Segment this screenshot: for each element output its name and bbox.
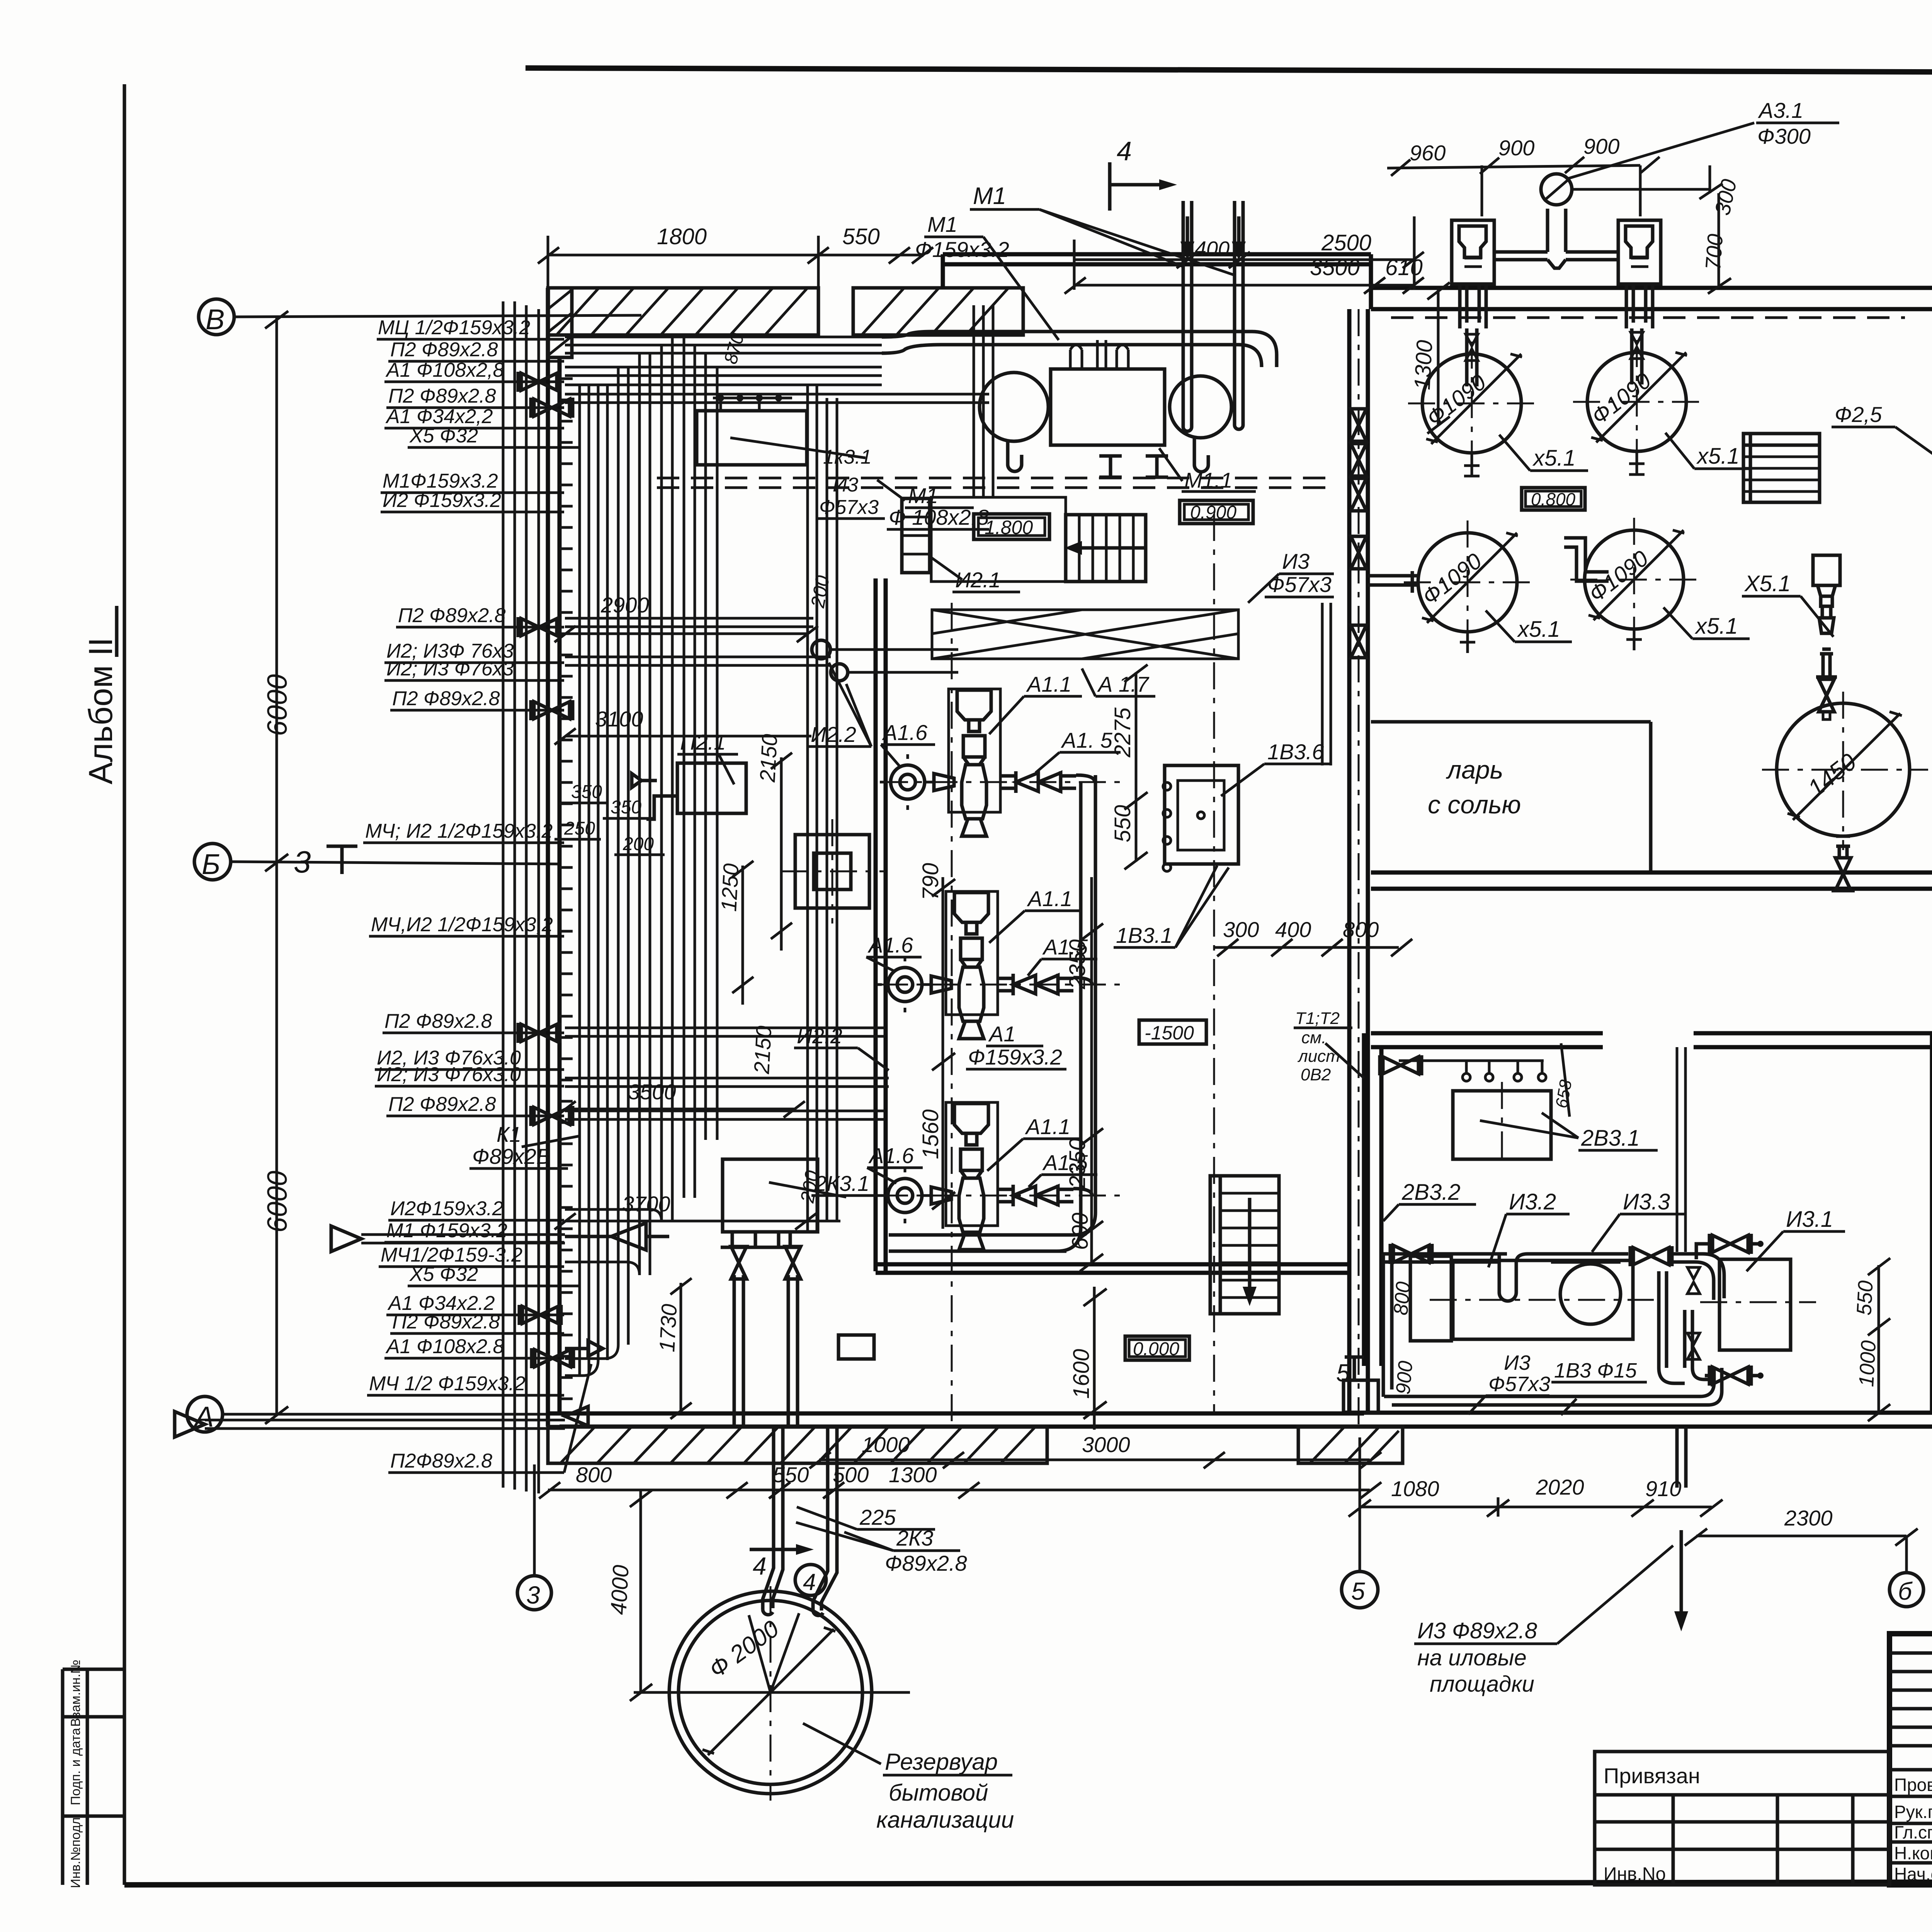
svg-text:А1.1: А1.1 [1025,1114,1070,1139]
top middle stairs [1065,515,1146,582]
svg-text:2300: 2300 [1784,1506,1833,1530]
pump drain U hooks [1008,438,1208,472]
svg-text:х5.1: х5.1 [1532,446,1576,471]
svg-text:1.800: 1.800 [985,517,1033,538]
svg-text:900: 900 [1583,134,1619,158]
down arrow outfall [1674,1530,1688,1631]
svg-text:225: 225 [859,1505,896,1529]
dash-dot axis vertical mid-right [1213,514,1215,1413]
svg-text:1300: 1300 [1410,339,1437,390]
bottom middle stairs [1210,1176,1279,1314]
dim 3100 [554,707,811,745]
svg-text:Ф89х2.8: Ф89х2.8 [885,1551,967,1575]
section mark 3 + tee left of Б [294,845,357,879]
dim 3500 [554,1080,805,1117]
chlorator bottle unit left [1452,220,1494,328]
svg-text:3: 3 [526,1581,540,1609]
svg-text:Взам.ин.№: Взам.ин.№ [68,1660,83,1727]
svg-text:И2Ф159х3.2: И2Ф159х3.2 [390,1197,503,1220]
svg-text:М1: М1 [973,183,1006,209]
A1.6 labels [866,720,935,1183]
svg-text:В: В [206,303,224,335]
svg-text:х5.1: х5.1 [1696,444,1740,469]
svg-text:б: б [1898,1577,1913,1605]
svg-text:Б: Б [202,848,220,880]
svg-text:х5.1: х5.1 [1517,617,1560,642]
svg-text:Рук.гр.: Рук.гр. [1894,1802,1932,1822]
tank bottom-right [1570,518,1698,643]
svg-text:790: 790 [918,863,943,900]
svg-text:А1: А1 [988,1022,1016,1046]
frame left line [123,84,126,1885]
privyazan table [1595,1752,1889,1885]
1.800 level box [974,514,1049,539]
svg-text:И3 Ф89х2.8: И3 Ф89х2.8 [1417,1618,1537,1643]
dim tick lines pump hall [932,665,1148,1430]
658 dim small [1552,1043,1576,1117]
svg-text:1800: 1800 [657,224,707,249]
I2.1 cells equipment [902,498,1020,592]
bottom pipe run of room [1384,1368,1722,1405]
gallery inner pipes pair [808,385,837,1233]
svg-text:4: 4 [753,1552,767,1580]
svg-text:МЧ; И2 1/2Ф159х3.2: МЧ; И2 1/2Ф159х3.2 [365,820,553,842]
svg-text:550: 550 [1852,1280,1878,1316]
crossed reserved area rect [932,610,1238,659]
M1 F108x2.8 label [877,480,989,529]
left wall pipe-rack rungs [560,379,573,1399]
svg-text:1В3.1: 1В3.1 [1116,923,1172,947]
svg-text:800: 800 [576,1463,612,1487]
M1 standpipes with arrows [1183,201,1243,431]
mid-top wall double line [943,254,1371,288]
I3 pipe down to 1V3.6 [1322,603,1331,765]
svg-text:1300: 1300 [889,1463,937,1487]
salt room text [1428,755,1521,819]
svg-text:6000: 6000 [262,1171,293,1233]
svg-text:2020: 2020 [1536,1475,1584,1499]
top-left corner vertical hatched pier [548,288,572,357]
pump axis dash-dot lines [881,782,1121,1196]
svg-text:П2 Ф89х2.8: П2 Ф89х2.8 [390,338,498,361]
A1.7 label [1082,668,1155,696]
buried mains outside left wall [503,301,539,1493]
svg-text:А1.6: А1.6 [882,720,928,745]
sump outer square [781,819,885,923]
pipe callout labels group 3 [369,1010,526,1472]
I3 F57x3 mid label right [1248,549,1334,603]
M1 pump unit circles [980,369,1231,445]
top dim 960 900 900 [1410,134,1619,165]
svg-text:800: 800 [1343,917,1379,942]
svg-text:3: 3 [294,845,311,879]
0.900 level box [1180,500,1253,524]
svg-text:И3: И3 [1282,549,1310,573]
svg-text:х5.1: х5.1 [1694,614,1738,639]
87d small dim near wall [720,331,748,366]
svg-text:400: 400 [1195,237,1230,260]
svg-text:И3.1: И3.1 [1786,1207,1833,1232]
0.000 level box [1125,1336,1189,1360]
svg-text:площадки: площадки [1430,1672,1534,1697]
axis circle 4 [795,1565,826,1595]
svg-text:550: 550 [773,1463,809,1487]
exit pipes left near A axis [175,1226,565,1437]
bottom-right room left wall [1364,1033,1381,1366]
M1.1 label [1159,448,1256,492]
A1.1 labels [987,672,1082,1171]
M1 pipe loop over top [882,332,1277,367]
svg-text:П2Ф89х2.8: П2Ф89х2.8 [390,1450,492,1472]
svg-text:П2 Ф89х2.8: П2 Ф89х2.8 [392,687,500,710]
svg-text:Гл.спец: Гл.спец [1894,1822,1932,1842]
svg-text:6000: 6000 [262,674,293,736]
svg-text:П2 Ф89х2.8: П2 Ф89х2.8 [388,1093,496,1116]
axis circle В [199,299,641,335]
svg-text:А1.1: А1.1 [1027,886,1072,911]
pump 2 [877,891,1092,1039]
section 4 mark on pipe [750,1544,814,1580]
svg-text:5: 5 [1351,1577,1365,1605]
A1.5 labels [1028,728,1121,1187]
I3.1 inlet valve [1696,1234,1764,1259]
vertical pipes right of I3.2 [1659,1271,1712,1383]
svg-text:ларь: ларь [1446,755,1503,784]
1V3.6 equipment box [1114,740,1331,947]
svg-text:И3: И3 [1504,1351,1531,1374]
valves on callout branch lines [518,372,560,392]
section mark 4 top [1110,136,1177,211]
svg-text:350: 350 [571,782,602,802]
reservoir label [803,1723,1014,1833]
bottom dim row 800 550 500 1300 [539,1463,1381,1498]
T1 T2 riser pipes [1677,1047,1685,1252]
bottom dim 2300 [1685,1506,1918,1573]
svg-text:3500: 3500 [1310,255,1360,280]
I3 F89x2.8 outfall label [1414,1546,1673,1697]
bottom-right corner blocks [1344,1380,1378,1413]
svg-text:П2 Ф89х2.8: П2 Ф89х2.8 [398,604,506,627]
hanging drops above 2V3.1 [1399,1061,1546,1081]
right section top wall double line [1371,254,1932,309]
svg-text:см.: см. [1301,1028,1326,1047]
pipe callout labels group 2 [365,604,553,936]
svg-text:910: 910 [1645,1476,1681,1501]
svg-text:0.800: 0.800 [1531,489,1576,509]
svg-text:3700: 3700 [622,1192,670,1216]
pump hall left wall [876,578,886,1271]
svg-text:1В3.6: 1В3.6 [1267,740,1324,764]
big tank bottom fitting [1832,836,1855,891]
divider wall valves [1351,409,1366,441]
pipe drop at left gallery verticals [565,337,717,1376]
A3.1 F300 label [1756,98,1839,148]
top pipe bundle horizontal runs [565,337,989,403]
svg-text:550: 550 [1110,805,1135,842]
svg-text:900: 900 [1498,136,1534,160]
svg-text:1730: 1730 [655,1303,681,1353]
dim 300 400 800 [1223,917,1379,942]
P2.1 box left [632,730,746,819]
svg-text:1600: 1600 [1069,1349,1094,1399]
svg-text:А1.1: А1.1 [1026,672,1071,696]
svg-text:-1500: -1500 [1145,1022,1194,1044]
axis circle 5 [1342,1571,1378,1608]
svg-text:Провер.: Провер. [1894,1775,1932,1795]
vertical dim line 6000/6000 [262,311,293,1424]
reservoir circle [634,1586,910,1801]
I3.2 tank small rect [1410,1256,1451,1341]
I2.2 labels [565,618,958,1119]
bottom dim line 1080 2020 910 [1349,1437,1723,1572]
right section lower wall band left part [1371,1033,1603,1047]
dim 3500 610 top [1065,216,1424,294]
svg-text:Альбом II: Альбом II [82,638,119,784]
svg-text:А3.1: А3.1 [1758,98,1803,122]
dim 1730 vertical [655,1278,692,1419]
svg-text:А 1.7: А 1.7 [1097,672,1150,696]
pump 3 [877,1102,1092,1250]
top dim 1800 550 [538,224,933,288]
top-left hatched wall band [548,288,818,335]
svg-text:Ф57х3: Ф57х3 [1488,1372,1550,1396]
I-beam symbols [1099,456,1168,477]
svg-text:Т1;Т2: Т1;Т2 [1295,1009,1340,1028]
svg-text:А1 Ф108х2.8: А1 Ф108х2.8 [385,1335,504,1358]
svg-text:700: 700 [1701,233,1727,271]
svg-text:Х5.1: Х5.1 [1744,571,1791,596]
dim 1300 vertical right of standpipes [1410,282,1450,434]
svg-text:2В3.1: 2В3.1 [1581,1126,1640,1151]
pump unit stubs on top [1070,340,1128,369]
svg-text:Привязан: Привязан [1604,1764,1700,1788]
svg-text:И2.2: И2.2 [797,1024,842,1048]
svg-text:с солью: с солью [1428,790,1521,819]
I3 F57x3 label upper [817,474,885,519]
I3.2 platform rect [1430,1260,1654,1339]
svg-text:0.000: 0.000 [1133,1339,1179,1359]
svg-text:4: 4 [803,1569,816,1595]
svg-text:И2.2: И2.2 [811,722,856,747]
svg-text:Резервуар: Резервуар [885,1749,998,1775]
K1 F89x2.8 label [469,1122,580,1168]
I2.1 chamber room rect [931,497,1066,582]
dash-dot axis vertical mid-left [951,603,953,1426]
axis circle 6 [1889,1573,1923,1607]
small box lower [838,1335,874,1359]
2V3.1 equipment box [1453,1082,1658,1167]
axis circle Б [194,844,560,880]
valve triangles on feeds [1466,334,1478,361]
pipe callout labels group 1 [378,316,530,512]
dim 400 2500 top [1074,230,1424,268]
svg-text:Н.контр.: Н.контр. [1894,1843,1932,1863]
550 1000 rotated dims right [1852,1258,1890,1421]
svg-text:800: 800 [1389,1281,1415,1316]
bottom floor hatched band 1 [548,1427,1047,1463]
225 dim with leaders [797,1505,935,1529]
svg-text:3500: 3500 [628,1080,676,1104]
pipe exiting room downward [1677,1427,1686,1488]
mid divider wall [1349,309,1368,1414]
M1 label with two leaders [970,183,1235,275]
big tank label x5.1 [1742,571,1833,637]
svg-text:5: 5 [1336,1359,1350,1387]
sewer pipes down to reservoir [763,1427,837,1616]
svg-text:К1: К1 [497,1122,521,1146]
svg-text:2В3.2: 2В3.2 [1401,1180,1461,1205]
main building bottom wall [548,1413,1364,1427]
svg-text:2275: 2275 [1110,707,1135,758]
svg-text:Ф57х3: Ф57х3 [819,496,879,519]
svg-text:П2 Ф89х2.8: П2 Ф89х2.8 [384,1010,492,1032]
-1500 level box [1139,1020,1206,1044]
riser pipes to I2.1 [974,305,993,498]
right top dim 300 700 [1699,165,1741,294]
dim 3700 [554,1169,840,1230]
svg-text:МЦ 1/2Ф159х3.2: МЦ 1/2Ф159х3.2 [378,316,530,339]
chlorator bottle unit right [1618,220,1661,328]
svg-text:И2; И3 Ф76х3.0: И2; И3 Ф76х3.0 [377,1063,521,1086]
frame bottom line [124,1881,1932,1885]
svg-text:М1: М1 [927,212,957,236]
svg-text:А1.6: А1.6 [867,933,913,957]
svg-text:960: 960 [1410,141,1446,165]
section mark 3-T upper [0,0,0,0]
svg-text:2150: 2150 [755,733,782,783]
1k3.1 equipment box [697,411,872,468]
chlorine manifold [1494,209,1618,268]
svg-text:Ф2,5: Ф2,5 [1835,402,1882,427]
svg-text:1080: 1080 [1391,1476,1439,1501]
salt room top wall [1371,722,1651,872]
svg-text:610: 610 [1385,255,1423,280]
svg-text:1560: 1560 [918,1109,943,1159]
svg-text:200: 200 [622,834,654,854]
dim 2900 [554,574,833,642]
title block revision rows [1889,1653,1932,1863]
svg-text:Инв.№подл.: Инв.№подл. [68,1814,83,1888]
2K3 F89x2.8 label [796,1522,967,1575]
pump 1 [880,689,1095,836]
I3.2 label [1488,1189,1570,1267]
left wall pipes of bottom-right room [1383,1244,1507,1397]
svg-text:А1.6: А1.6 [868,1143,914,1168]
5-tee marks [1336,1352,1932,1387]
svg-text:Ф159х3.2: Ф159х3.2 [968,1045,1062,1069]
pump hall bottom wall [876,1264,1349,1273]
svg-text:4: 4 [1117,136,1132,166]
svg-text:0В2: 0В2 [1301,1065,1331,1084]
svg-text:Ф89х2В: Ф89х2В [472,1144,551,1168]
svg-text:М1 Ф159х3.2: М1 Ф159х3.2 [386,1219,507,1242]
svg-text:1000: 1000 [862,1432,910,1457]
bottom-right room bottom wall [1344,1413,1932,1427]
svg-text:250: 250 [564,818,595,839]
svg-text:Инв.No: Инв.No [1604,1864,1666,1884]
svg-text:И3.2: И3.2 [1509,1189,1556,1214]
svg-text:канализации: канализации [876,1807,1014,1833]
svg-text:бытовой: бытовой [889,1780,988,1806]
big tank x5.1 [1762,692,1928,850]
svg-text:3000: 3000 [1082,1432,1130,1457]
top wall second hatched band (right of door) [853,288,1023,335]
svg-text:4000: 4000 [606,1564,634,1615]
4000 vertical dim [606,1490,652,1701]
mixer above big tank [1813,555,1840,719]
left margin stamp boxes [63,1669,124,1885]
svg-text:400: 400 [1275,917,1311,942]
svg-text:2500: 2500 [1321,230,1371,255]
svg-text:1к3.1: 1к3.1 [823,446,872,468]
lower valve bowtie to I3.1 [1705,1366,1764,1386]
svg-text:Нач.отд: Нач.отд [1894,1864,1932,1884]
svg-text:3100: 3100 [595,707,643,731]
I3.3 valve and label [1551,1189,1724,1300]
svg-text:2350: 2350 [1065,1138,1090,1189]
svg-text:300: 300 [1223,917,1259,942]
hidden pipe dashed run under pump group [657,478,1333,488]
right stairs [1743,434,1820,502]
axis circle 3 [517,1464,551,1610]
svg-text:И3.3: И3.3 [1623,1189,1670,1214]
0.800 level box [1522,488,1585,510]
A1 F159x3.2 label [966,1022,1066,1069]
building left wall double line [548,288,560,1427]
I3 F57x3 1V3 F15 labels [1468,1351,1647,1415]
svg-text:1000: 1000 [1855,1340,1880,1388]
M1 F159x3.2 top label [915,212,1059,340]
right section mid floor band [1371,872,1932,889]
svg-text:Ф300: Ф300 [1757,124,1811,148]
svg-text:2150: 2150 [749,1025,776,1075]
tank bottom-left [1404,520,1531,646]
svg-text:А1. 5: А1. 5 [1061,728,1113,752]
svg-text:Ф159х3.2: Ф159х3.2 [915,237,1009,262]
bottom tanks feed pipes from divider wall [1368,538,1609,593]
svg-text:2350: 2350 [1065,939,1090,990]
svg-text:Подп. и дата: Подп. и дата [68,1728,83,1805]
2V3.2 label [1383,1180,1476,1221]
vertical dim texts pump hall [918,707,1135,1399]
small dims 350 250 350 200 [554,782,665,855]
svg-text:900: 900 [1392,1360,1417,1395]
tank top-right [1573,340,1701,466]
900 800 rotated dims [1389,1281,1417,1395]
I3.2 dip pipe [1499,1254,1551,1301]
right section lower wall band right part [1694,1033,1932,1047]
x5.1 labels for tanks [1486,433,1751,642]
A1 header pipes vertical [904,775,1095,1251]
svg-text:П2.1: П2.1 [680,730,726,754]
svg-text:1В3 Ф15: 1В3 Ф15 [1554,1359,1637,1382]
axis circle А [187,1396,638,1433]
svg-text:И2; И3 Ф76х3: И2; И3 Ф76х3 [386,658,514,680]
tank bottom stems [1460,451,1645,653]
svg-text:на иловые: на иловые [1417,1645,1527,1670]
I3.1 box [1700,1207,1845,1350]
frame top line [526,68,1932,74]
title block outer [1889,1634,1932,1885]
tank top-left [1408,342,1536,467]
pump hall bottom pipe manifold [889,1235,1066,1251]
dim 2150 1250 2150 left column [716,733,792,1075]
right section inner dashed line [1391,316,1905,319]
F2,5 label [1832,402,1932,475]
svg-text:500: 500 [833,1463,869,1487]
svg-text:550: 550 [842,224,880,249]
bottom dim row 1000 1300 3000 [810,1432,1381,1468]
